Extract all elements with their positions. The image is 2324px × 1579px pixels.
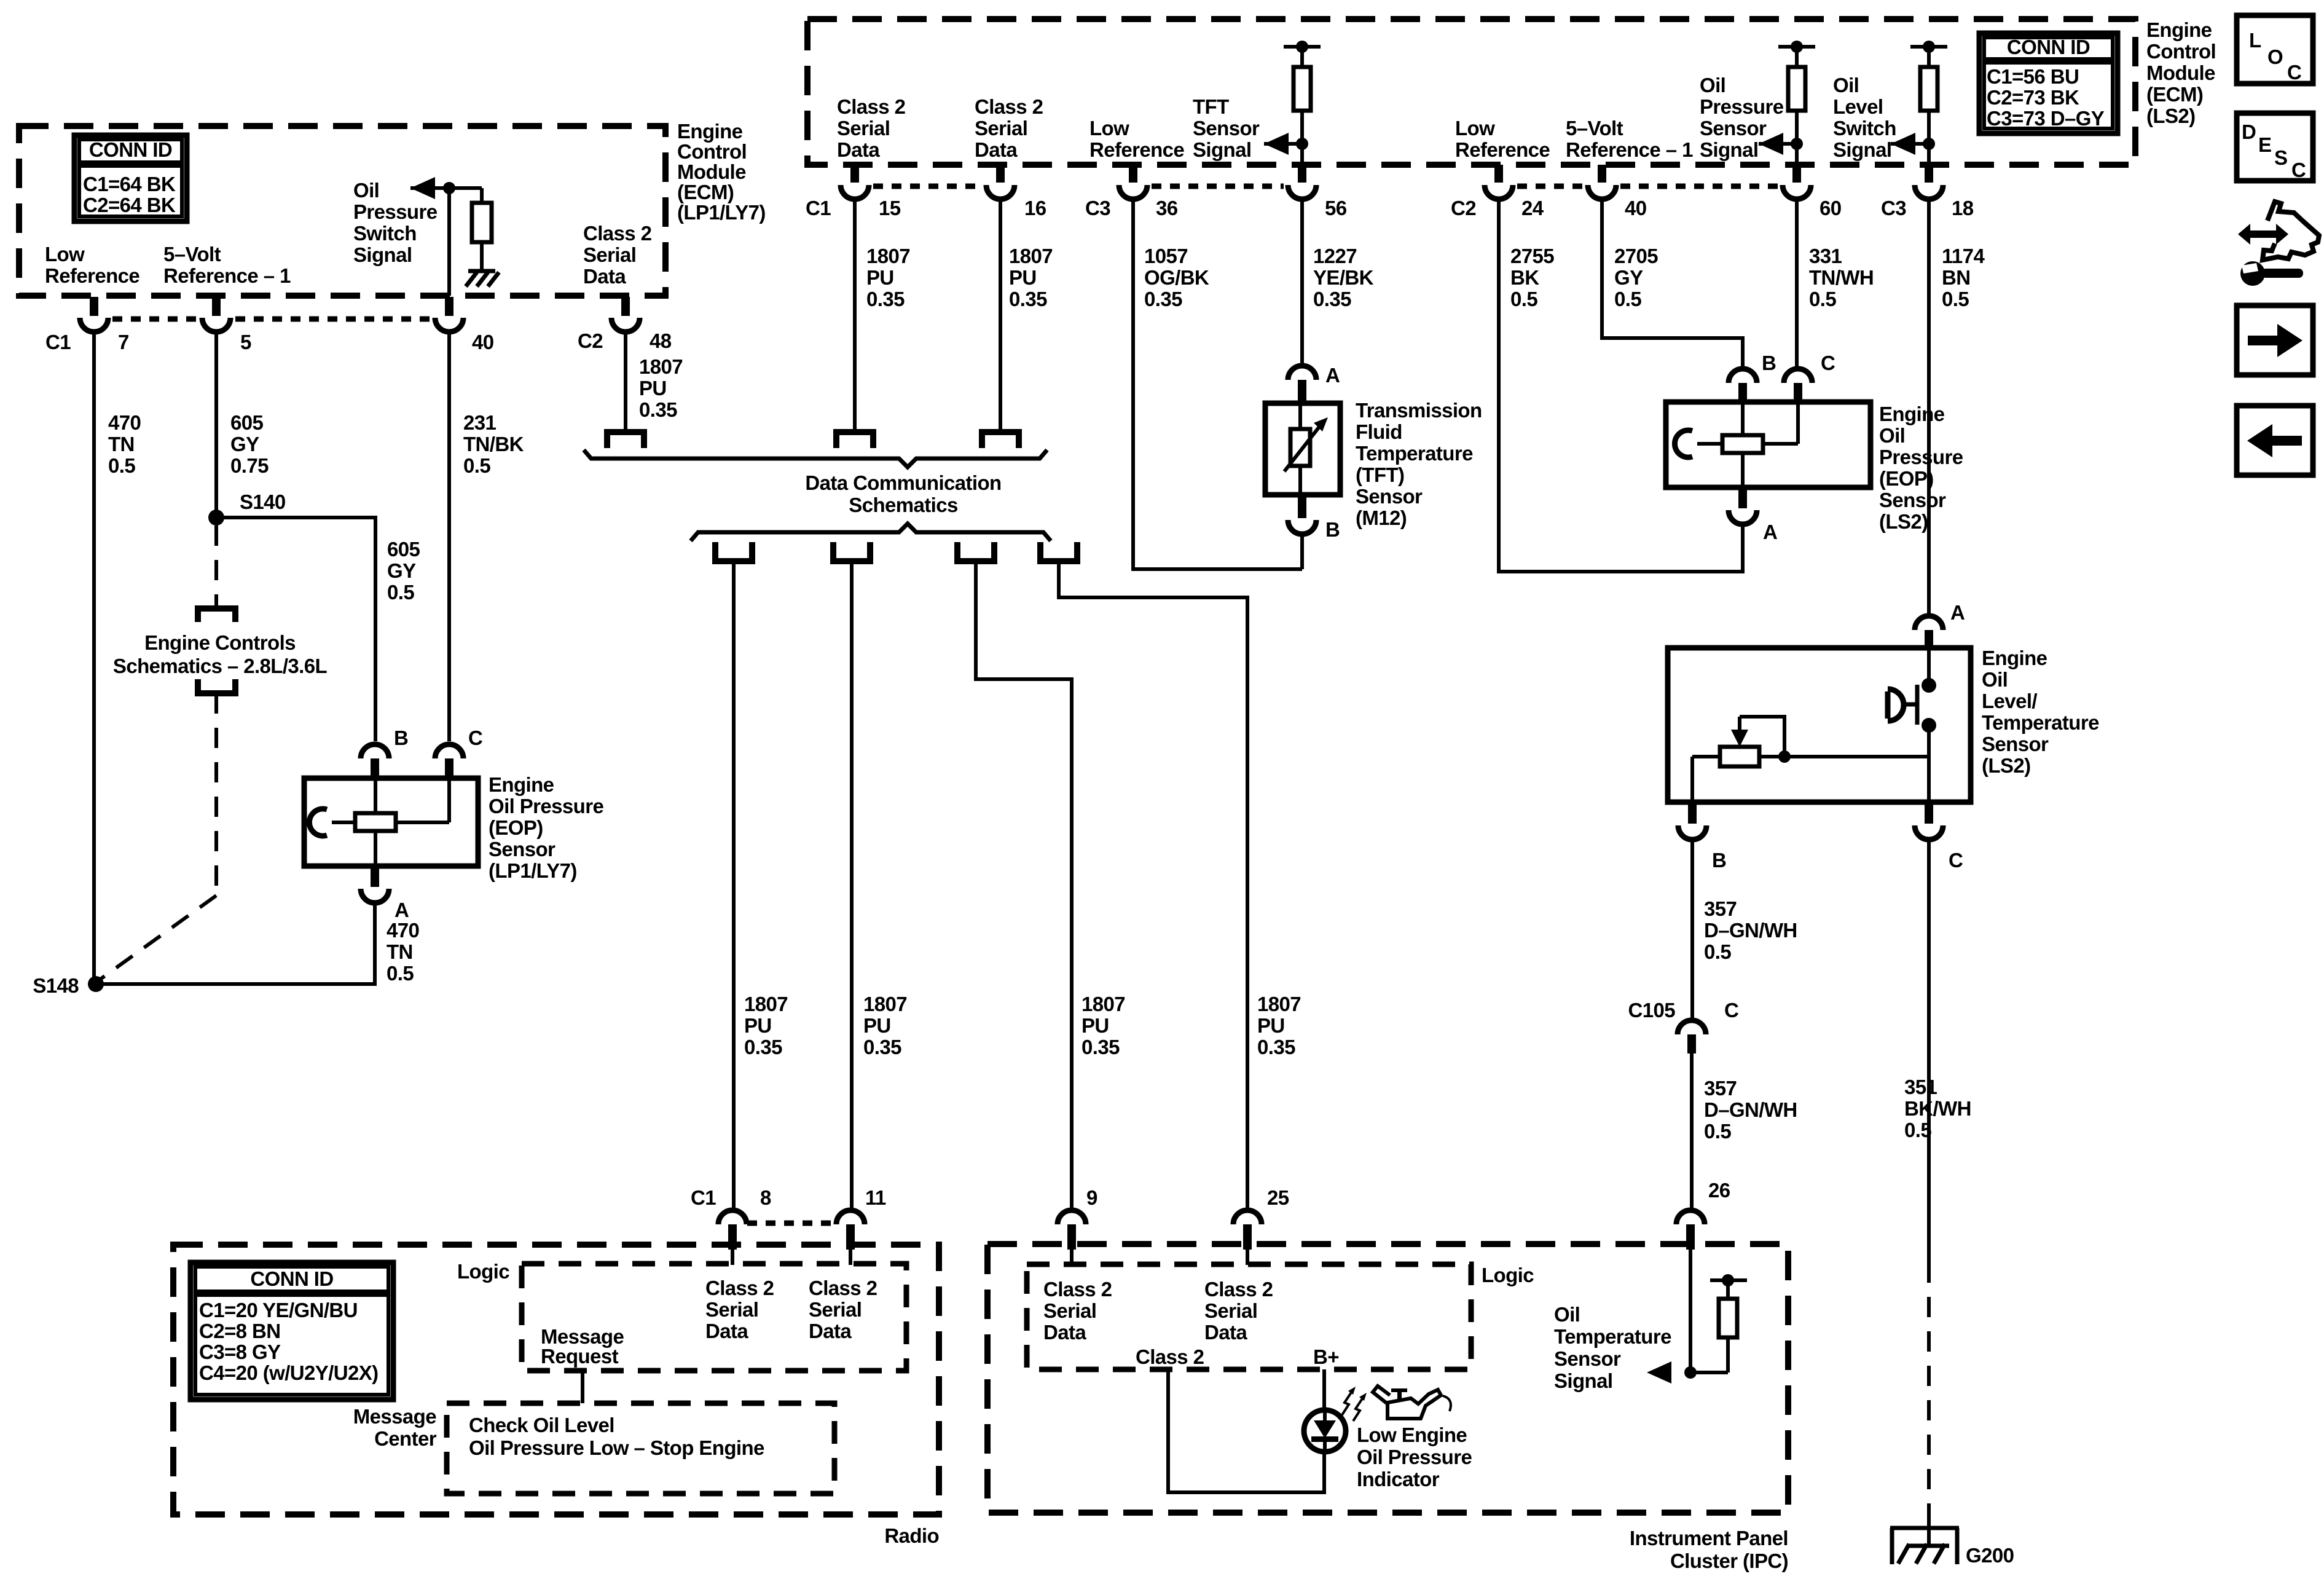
svg-text:BK/WH: BK/WH [1904,1097,1971,1120]
off-page bracket lower (Engine Controls) [198,679,235,693]
svg-text:S140: S140 [240,490,286,513]
svg-text:PU: PU [1082,1014,1109,1037]
EOP-LP1 pressure capsule symbol [309,809,327,836]
svg-text:Low Engine: Low Engine [1357,1423,1467,1446]
svg-text:PU: PU [866,266,894,289]
svg-text:Temperature: Temperature [1982,711,2099,734]
svg-text:Signal: Signal [353,243,412,266]
svg-text:Level: Level [1833,95,1883,118]
connector body line radio C1 (8-11) [747,1221,835,1226]
svg-text:(LP1/LY7): (LP1/LY7) [489,859,577,882]
EOP-LP1 C internal wire [396,821,449,824]
svg-text:C: C [2287,61,2301,84]
svg-text:PU: PU [863,1014,891,1037]
connector C2 pin 24 [1494,165,1503,183]
message center box (dashed) [447,1403,834,1494]
svg-text:0.5: 0.5 [1614,288,1641,310]
svg-text:Sensor: Sensor [1193,117,1260,140]
wire S140 branch to EOP B [216,518,375,741]
svg-text:(TFT): (TFT) [1356,463,1404,486]
svg-text:Reference: Reference [1455,138,1550,161]
svg-text:357: 357 [1704,897,1737,920]
svg-text:0.5: 0.5 [1809,288,1836,310]
connector IPC pin 26 [1676,1210,1705,1224]
svg-text:Control: Control [2146,40,2216,63]
svg-text:Module: Module [677,160,746,183]
wire B+ to indicator [1322,1369,1326,1411]
CONN ID table (ECM LS2) [1979,33,2118,133]
svg-text:C2: C2 [1451,197,1476,219]
svg-text:Oil: Oil [1700,74,1725,96]
wire 1807 PU (bus to IPC pin 9) [976,561,1072,1208]
svg-text:1807: 1807 [744,993,788,1015]
svg-text:D: D [2242,120,2256,143]
svg-text:C1: C1 [45,331,71,353]
svg-text:0.35: 0.35 [863,1036,901,1058]
dashed wire 351 to G200 [1927,1262,1931,1510]
oil level switch pull-up (pin 18) [1910,45,1947,49]
svg-text:G200: G200 [1966,1544,2014,1567]
EOP-LS2 sense resistor [1722,435,1763,453]
svg-text:(LS2): (LS2) [2146,104,2196,127]
svg-text:B: B [394,726,408,749]
connector C1 pin 16 [996,165,1005,183]
connector oil level sensor pin C [1925,802,1933,824]
svg-text:Class 2: Class 2 [975,95,1043,118]
connector C1 pin 7 [90,297,98,316]
svg-text:1807: 1807 [639,355,683,378]
svg-text:C1: C1 [691,1186,716,1209]
svg-text:605: 605 [230,411,264,434]
wire 1227 YE/BK (pin 56 to TFT A) [1300,200,1304,364]
svg-text:0.5: 0.5 [108,454,135,477]
wire message request [581,1371,584,1403]
terminal bus to IPC wire 2 [1040,542,1077,561]
svg-text:15: 15 [879,197,901,219]
svg-text:Sensor: Sensor [1982,733,2049,755]
svg-text:Reference: Reference [1089,138,1184,161]
svg-text:Signal: Signal [1833,138,1891,161]
svg-text:Fluid: Fluid [1356,420,1402,443]
oil can icon [1373,1386,1390,1404]
splice S148 [88,976,104,992]
svg-text:Class 2: Class 2 [1204,1278,1273,1301]
off-page bracket upper (Engine Controls) [198,608,235,622]
svg-text:Temperature: Temperature [1554,1325,1671,1348]
connector body line C1 (7-5-40) [112,317,197,322]
TFT sensor (M12) box [1265,403,1340,495]
svg-text:1807: 1807 [1082,993,1125,1015]
ground G200 [1890,1526,1959,1530]
svg-text:Class 2: Class 2 [1136,1345,1204,1368]
svg-text:0.35: 0.35 [1313,288,1351,310]
svg-text:C1: C1 [806,197,831,219]
icon arrow left box [2237,406,2313,475]
svg-text:5: 5 [240,331,251,353]
svg-text:BN: BN [1942,266,1970,289]
svg-text:Data: Data [837,138,880,161]
connector IPC pin 9 [1058,1210,1086,1224]
svg-text:605: 605 [387,538,420,561]
svg-text:GY: GY [230,433,259,455]
CONN ID table (radio) [190,1262,393,1400]
svg-text:TN/BK: TN/BK [463,433,524,455]
svg-text:Class 2: Class 2 [1043,1278,1112,1301]
svg-text:(M12): (M12) [1356,506,1407,529]
svg-text:Engine: Engine [2146,18,2212,41]
svg-text:Serial: Serial [583,243,636,266]
svg-text:0.5: 0.5 [1904,1119,1931,1141]
svg-text:C1=20 YE/GN/BU: C1=20 YE/GN/BU [199,1299,358,1321]
radio pins 8/11 connectors [732,1197,736,1201]
svg-text:OG/BK: OG/BK [1144,266,1209,289]
svg-text:Signal: Signal [1193,138,1251,161]
svg-text:40: 40 [1625,197,1647,219]
svg-text:E: E [2258,133,2271,156]
connector C105 pin C [1678,1020,1706,1034]
wire 351 BK/WH (C to ground) [1927,841,1931,1262]
wire 357 to junction (IPC) [1689,1254,1692,1372]
IPC oil temperature pull-up resistor [1726,1337,1730,1372]
svg-text:PU: PU [744,1014,772,1037]
svg-text:C3=8 GY: C3=8 GY [199,1341,281,1363]
connector C3 pin 56 [1298,165,1306,183]
svg-text:CONN ID: CONN ID [89,138,172,161]
svg-text:Oil: Oil [1833,74,1859,96]
svg-text:9: 9 [1086,1186,1097,1209]
svg-text:S: S [2274,146,2287,169]
svg-text:0.75: 0.75 [230,454,269,477]
wire 1057 OG/BK (pin 36 to TFT B) [1133,200,1302,569]
svg-text:BK: BK [1510,266,1539,289]
svg-text:Class 2: Class 2 [583,222,652,245]
svg-text:A: A [1325,364,1340,387]
svg-text:C1=56 BU: C1=56 BU [1987,65,2079,88]
brace upper (data communication) [584,450,1047,467]
terminal 1807 pin16 to bus [982,432,1019,448]
svg-text:Engine Controls: Engine Controls [144,631,296,654]
svg-text:YE/BK: YE/BK [1313,266,1374,289]
svg-text:B+: B+ [1313,1345,1339,1368]
connector TFT pin A [1288,366,1316,380]
svg-text:0.5: 0.5 [387,962,414,985]
svg-text:Engine: Engine [1982,647,2047,669]
svg-text:Oil: Oil [1982,668,2008,691]
wire 231 TN/BK 0.5 (pin 40 to EOP C) [447,333,451,741]
svg-text:L: L [2249,29,2261,52]
svg-text:1807: 1807 [1009,245,1053,267]
svg-text:Data: Data [1043,1321,1086,1344]
svg-text:C: C [1724,999,1738,1022]
splice S140 [208,510,224,526]
svg-text:48: 48 [650,329,672,352]
wire 1807 PU (bus to radio pin 11) [850,561,854,1208]
svg-text:Engine: Engine [1879,403,1945,425]
svg-text:0.5: 0.5 [1704,1120,1731,1143]
connector C3 pin 18 [1925,165,1933,183]
svg-text:0.5: 0.5 [1704,940,1731,963]
svg-text:Center: Center [374,1427,437,1450]
svg-text:Data: Data [809,1320,852,1342]
svg-text:C3: C3 [1881,197,1906,219]
svg-text:Data: Data [705,1320,748,1342]
wire 357 D-GN/WH (B to C105) [1690,841,1694,1018]
svg-text:(LS2): (LS2) [1879,510,1928,533]
connector radio C1 pin 8 [718,1210,747,1224]
svg-text:0.35: 0.35 [639,398,677,421]
brace lower (data communication) [691,524,1051,541]
EOP-LP1 sense resistor [355,813,396,831]
connector EOP-LS2 pin B [1729,369,1757,383]
connector C3 pin 36 [1129,165,1137,183]
svg-text:Serial: Serial [705,1298,758,1321]
svg-text:C3: C3 [1085,197,1110,219]
engine oil level/temperature sensor (LS2) box [1668,648,1971,802]
svg-text:Transmission: Transmission [1356,399,1482,422]
svg-text:Cluster (IPC): Cluster (IPC) [1670,1549,1788,1572]
svg-text:(LP1/LY7): (LP1/LY7) [677,201,766,224]
svg-text:Sensor: Sensor [1879,489,1946,511]
svg-text:Data: Data [583,265,626,288]
svg-text:60: 60 [1820,197,1842,219]
icon DESC box [2237,113,2313,181]
svg-text:C3=73 D–GY: C3=73 D–GY [1987,107,2105,130]
wire 357 D-GN/WH (C105 to IPC 26) [1690,1053,1694,1208]
TFT sensor signal pull-up (pin 56) [1284,45,1321,49]
svg-text:GY: GY [1614,266,1643,289]
svg-text:Signal: Signal [1700,138,1758,161]
svg-text:(ECM): (ECM) [2146,83,2203,106]
svg-text:O: O [2267,45,2283,68]
icon LOC box [2237,15,2313,84]
svg-text:B: B [1762,352,1776,374]
svg-text:357: 357 [1704,1077,1737,1100]
svg-text:0.5: 0.5 [387,581,414,604]
svg-text:PU: PU [639,377,667,400]
svg-text:Low: Low [1455,117,1495,140]
svg-text:Reference – 1: Reference – 1 [163,264,291,287]
svg-text:Low: Low [45,243,85,266]
icon hand with wrench [2263,202,2319,260]
radio logic box (dashed) [522,1264,906,1371]
svg-text:C2: C2 [578,329,603,352]
EOP-LS2 pressure capsule symbol [1674,430,1692,457]
TFT thermistor [1290,429,1310,466]
svg-text:16: 16 [1024,197,1046,219]
svg-text:8: 8 [760,1186,771,1209]
signal arrow (oil pressure switch) [410,177,435,199]
svg-text:B: B [1712,849,1726,872]
terminal 1807 pin48 to bus [607,432,644,448]
wire 1174 BN (pin 18 to oil level sensor A) [1927,200,1931,615]
svg-text:Instrument Panel: Instrument Panel [1630,1527,1788,1549]
svg-text:(ECM): (ECM) [677,181,734,203]
connector oil level sensor pin B [1688,802,1697,824]
connector TFT pin B [1298,495,1306,518]
IPC logic box (dashed) [1027,1264,1471,1369]
svg-text:Oil Pressure Low – Stop Engine: Oil Pressure Low – Stop Engine [469,1436,764,1459]
svg-text:Class 2: Class 2 [809,1277,877,1299]
terminal bus to radio wire 2 [833,542,870,561]
oil level switch contacts [1927,650,1931,680]
junction dot pin 40 internal [443,182,455,194]
wire 1807 pin15 to bus [853,200,857,433]
svg-text:Pressure: Pressure [1879,446,1963,468]
connector body line C2 (24-40-60) [1517,184,1584,189]
svg-text:C2=8 BN: C2=8 BN [199,1320,280,1342]
svg-text:Control: Control [677,140,747,163]
connector EOP-LP1 pin A [371,866,379,887]
low oil pressure indicator LED [1304,1410,1346,1452]
svg-text:Temperature: Temperature [1356,442,1473,465]
EOP sensor (LS2) box [1666,402,1871,487]
svg-text:C105: C105 [1628,999,1676,1022]
svg-text:Data: Data [975,138,1018,161]
svg-text:Indicator: Indicator [1357,1468,1440,1490]
svg-text:470: 470 [108,411,141,434]
svg-text:0.5: 0.5 [463,454,490,477]
wire 470 TN 0.5 (pin 7 to S148) [92,333,96,984]
LED light rays [1342,1392,1352,1415]
svg-text:Serial: Serial [1204,1299,1257,1322]
svg-text:1807: 1807 [866,245,910,267]
svg-text:231: 231 [463,411,497,434]
wire 1807 pin16 to bus [999,200,1002,433]
svg-text:Oil: Oil [353,179,379,202]
pull-up resistor (oil pressure switch) [480,188,484,203]
oil temperature sensor signal arrow [1647,1361,1671,1384]
svg-text:Serial: Serial [809,1298,862,1321]
svg-text:Logic: Logic [457,1260,509,1283]
svg-text:Reference: Reference [45,264,139,287]
svg-text:B: B [1325,518,1340,541]
svg-text:Serial: Serial [1043,1299,1096,1322]
connector EOP-LS2 pin A [1738,487,1747,508]
svg-text:TN: TN [387,940,413,963]
wire S148 to EOP A [96,904,375,984]
svg-text:Message: Message [353,1405,436,1428]
svg-text:Pressure: Pressure [353,200,438,223]
svg-text:0.35: 0.35 [1009,288,1047,310]
svg-text:Engine: Engine [677,120,743,143]
connector C2 pin 48 [621,297,630,316]
svg-text:2755: 2755 [1510,245,1554,267]
svg-text:36: 36 [1156,197,1178,219]
svg-text:D–GN/WH: D–GN/WH [1704,1098,1797,1121]
icon arrow right box [2237,305,2313,375]
connector IPC pin 25 [1233,1210,1262,1224]
connector C1 pin 15 [850,165,859,183]
connector C1 pin 5 [212,297,221,316]
connector C2 pin 60 [1792,165,1801,183]
svg-text:1807: 1807 [863,993,907,1015]
ECM LP1/LY7 module box (dashed) [19,126,665,296]
wire 1807 PU 0.35 (pin 48 to data bus) [624,333,627,433]
svg-text:0.5: 0.5 [1942,288,1969,310]
connector C1 pin 40 [445,297,453,316]
svg-text:Class 2: Class 2 [837,95,906,118]
svg-text:Class 2: Class 2 [705,1277,774,1299]
wire 605 GY 0.75 (pin 5 to S140) [214,333,218,518]
svg-text:Oil Pressure: Oil Pressure [1357,1446,1472,1468]
svg-text:Low: Low [1089,117,1129,140]
svg-text:1807: 1807 [1257,993,1301,1015]
svg-text:A: A [1950,601,1965,624]
svg-text:Sensor: Sensor [489,838,555,860]
svg-text:Module: Module [2146,61,2215,84]
dashed wire S140 to Engine Controls reference [214,526,218,605]
svg-text:C4=20 (w/U2Y/U2X): C4=20 (w/U2Y/U2X) [199,1361,379,1384]
svg-text:D–GN/WH: D–GN/WH [1704,919,1797,942]
svg-text:0.5: 0.5 [1510,288,1537,310]
svg-text:C: C [2291,159,2306,181]
svg-text:0.35: 0.35 [1257,1036,1295,1058]
svg-text:C2=64 BK: C2=64 BK [83,194,176,216]
svg-text:TN/WH: TN/WH [1809,266,1874,289]
terminal bus to IPC wire 1 [957,542,994,561]
svg-text:Sensor: Sensor [1356,485,1423,508]
svg-text:Switch: Switch [1833,117,1896,140]
svg-text:TFT: TFT [1193,95,1229,118]
svg-text:1174: 1174 [1942,245,1985,267]
svg-text:Request: Request [541,1345,619,1368]
svg-text:24: 24 [1521,197,1544,219]
svg-text:Engine: Engine [489,773,554,796]
wire 1807 PU (bus to radio pin 8) [732,561,736,1208]
connector EOP-LS2 pin C [1784,369,1812,383]
svg-text:S148: S148 [33,974,79,997]
internal ground symbol (ECM LP1/LY7) [468,269,495,274]
svg-text:26: 26 [1708,1179,1730,1202]
svg-text:Radio: Radio [884,1524,939,1547]
svg-text:Reference – 1: Reference – 1 [1566,138,1693,161]
svg-text:40: 40 [472,331,494,353]
svg-text:25: 25 [1267,1186,1289,1209]
svg-text:PU: PU [1009,266,1037,289]
svg-text:Oil: Oil [1879,424,1905,447]
dashed wire Engine Controls to S148 diagonal [214,693,218,896]
wire pin40 internal [447,188,451,296]
svg-text:Check Oil Level: Check Oil Level [469,1414,614,1436]
wire 1807 PU (bus to IPC pin 25) [1059,561,1247,1208]
svg-text:A: A [395,899,409,921]
wire TFT B to low reference [1300,535,1304,569]
svg-text:(LS2): (LS2) [1982,754,2031,777]
svg-text:C: C [468,726,482,749]
svg-text:(EOP): (EOP) [489,816,543,839]
terminal 1807 pin15 to bus [836,432,873,448]
svg-text:1227: 1227 [1313,245,1357,267]
svg-text:0.35: 0.35 [866,288,905,310]
svg-text:11: 11 [865,1186,886,1209]
svg-text:Pressure: Pressure [1700,95,1784,118]
svg-text:7: 7 [118,331,129,353]
svg-text:5–Volt: 5–Volt [1566,117,1623,140]
wire class 2 to indicator [1168,1369,1324,1492]
oil temperature potentiometer [1720,747,1759,766]
svg-text:(EOP): (EOP) [1879,467,1934,490]
oil level switch actuator symbol [1885,691,1891,719]
EOP sensor (LP1/LY7) box [304,778,478,866]
wire 2755 BK (pin 24 to EOP-LS2 A) [1499,200,1743,572]
connector oil level sensor pin A [1915,616,1943,630]
svg-text:Schematics – 2.8L/3.6L: Schematics – 2.8L/3.6L [113,655,328,677]
svg-text:Logic: Logic [1482,1264,1534,1286]
svg-text:Oil: Oil [1554,1303,1580,1326]
svg-text:470: 470 [387,919,419,942]
CONN ID table (ECM LP1/LY7) [74,135,187,221]
svg-text:Level/: Level/ [1982,690,2037,712]
